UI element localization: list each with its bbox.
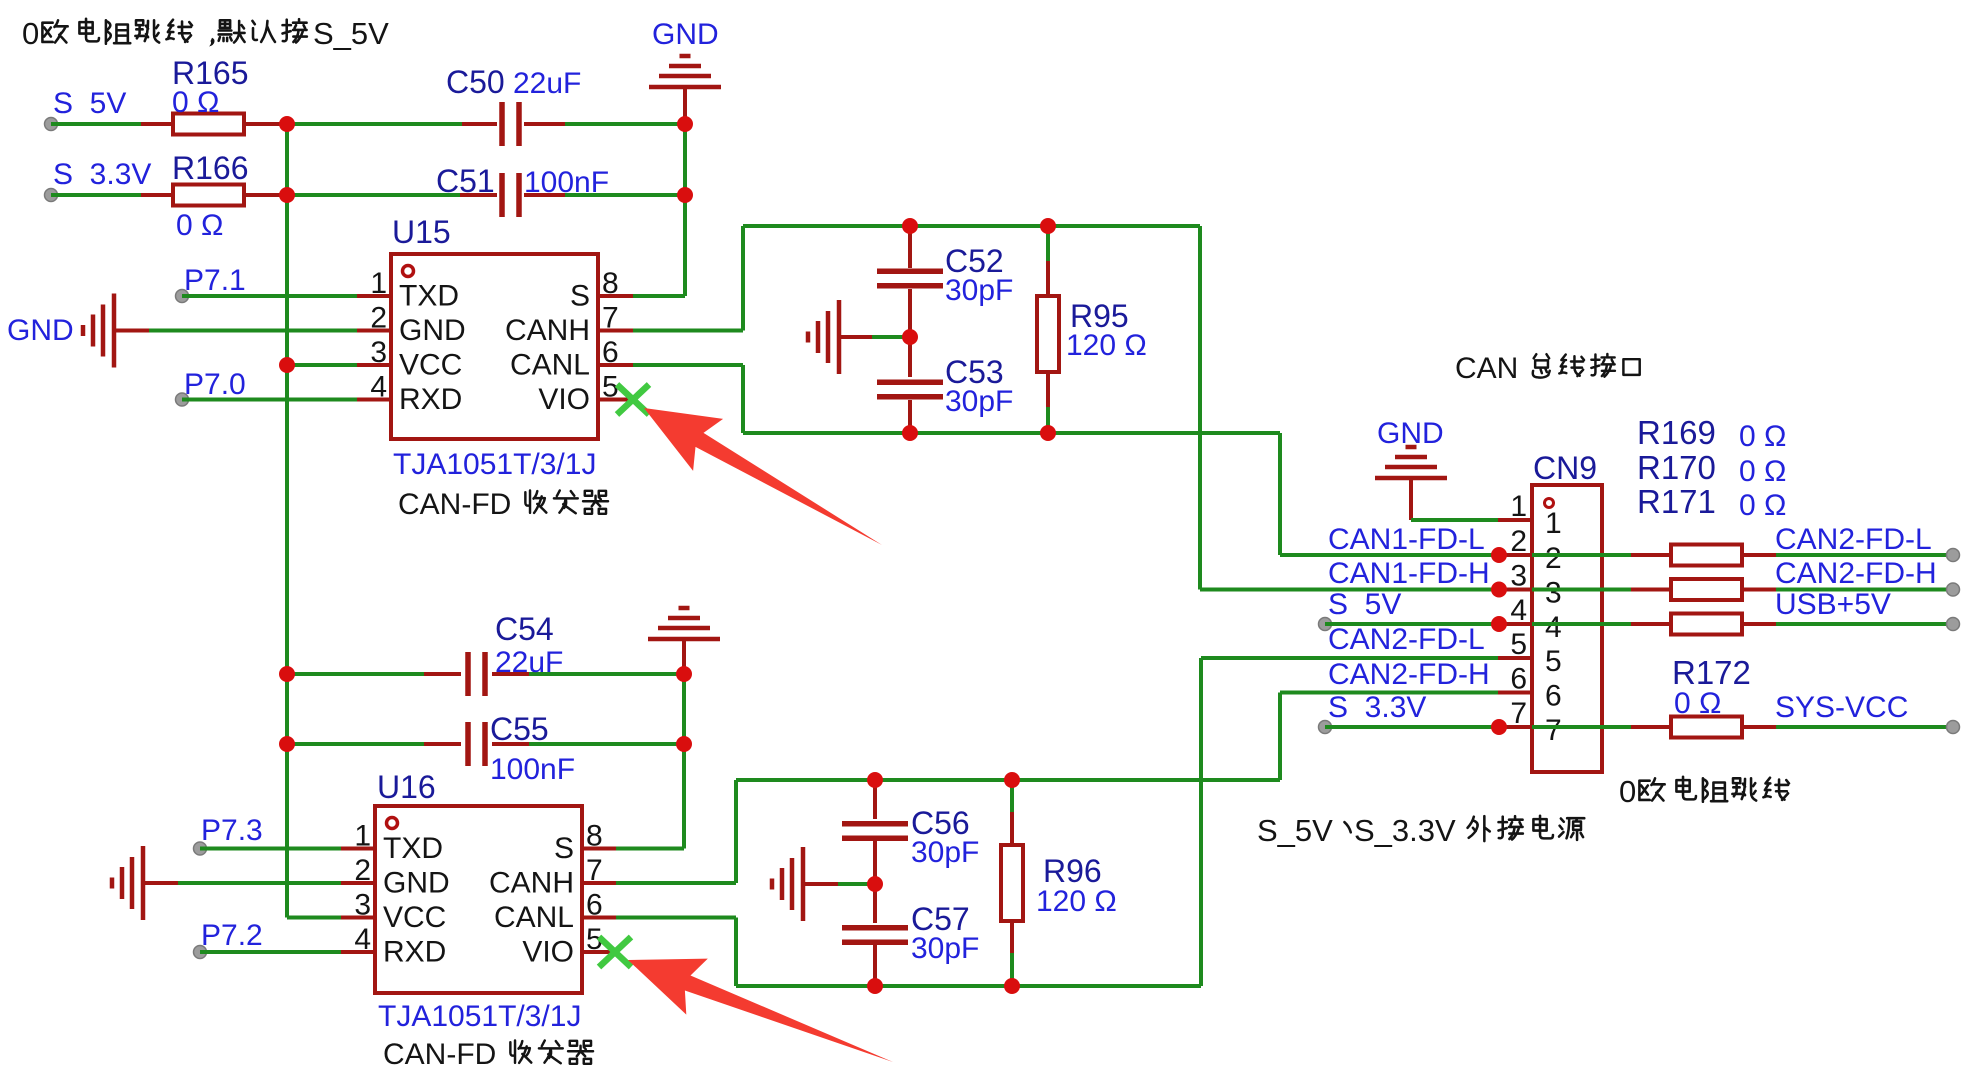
svg-text:R166: R166: [172, 150, 249, 186]
svg-text:2: 2: [1545, 542, 1562, 575]
svg-text:0: 0: [22, 16, 39, 51]
wire vertical to U16 S pin: [682, 674, 686, 849]
svg-text:S_5V: S_5V: [313, 16, 389, 51]
wire P7.2 to U16 RXD: [200, 950, 341, 954]
junction CN9 pin4: [1491, 616, 1507, 632]
terminal SYS-VCC: [1947, 721, 1960, 734]
CN9 pin 7: [1498, 725, 1532, 729]
capacitor C51 plates: [502, 173, 519, 217]
wire CANH to CN9 pin3: [1198, 226, 1202, 590]
svg-text:S: S: [570, 280, 590, 313]
capacitor C53 plates: [877, 382, 943, 396]
svg-text:S 3.3V: S 3.3V: [1328, 691, 1426, 724]
junction: [279, 736, 295, 752]
wire vertical GND to U15 S pin: [683, 124, 687, 296]
U15 pin 1 TXD: [357, 294, 391, 298]
capacitor C52 plates: [877, 271, 943, 285]
junction: [902, 329, 918, 345]
wire vertical S-net bus: [285, 124, 289, 918]
wire ground to U16 pin2: [178, 881, 341, 885]
ground stem: [803, 882, 838, 886]
annotation arrow to U15 VIO: [644, 408, 882, 545]
ground stem: [114, 329, 149, 333]
IC U16 TJA1051 body: [375, 806, 582, 993]
terminal USB+5V: [1947, 618, 1960, 631]
capacitor C50: [462, 122, 497, 126]
terminal CAN2-FD-H: [1947, 583, 1960, 596]
junction CN9 pin2: [1491, 547, 1507, 563]
junction: [279, 357, 295, 373]
svg-text:8: 8: [586, 820, 603, 853]
U16 pin 6 CANL: [582, 916, 616, 920]
ground left of U16: [112, 846, 143, 920]
svg-text:CAN-FD: CAN-FD: [398, 488, 511, 521]
wire: [287, 193, 460, 197]
resistor R170 jumper: [1532, 588, 1631, 592]
U15 pin 7 CANH: [598, 329, 633, 333]
wire: [51, 193, 141, 197]
svg-text:CANH: CANH: [505, 314, 590, 347]
U16 pin 2 GND: [341, 881, 375, 885]
wire S_3.3V to CN9 pin7: [1325, 725, 1499, 729]
wire CANL rail lower: [736, 984, 1201, 988]
annotation arrow to U16 VIO: [628, 959, 893, 1062]
svg-text:RXD: RXD: [399, 383, 462, 416]
svg-text:8: 8: [602, 267, 619, 300]
ground stem: [143, 881, 178, 885]
ground above U16 S net: [648, 608, 720, 639]
svg-text:CAN2-FD-H: CAN2-FD-H: [1328, 658, 1490, 691]
ground stem: [839, 335, 872, 339]
terminal P7.2: [194, 946, 207, 959]
wire CANL U16: [616, 916, 736, 920]
svg-text:4: 4: [370, 371, 387, 404]
svg-text:7: 7: [586, 854, 603, 887]
terminal P7.0: [176, 393, 189, 406]
CN9 pin 4: [1498, 622, 1532, 626]
svg-text:1: 1: [370, 267, 387, 300]
terminal S_3.3V right: [1319, 721, 1332, 734]
svg-text:7: 7: [1510, 697, 1527, 730]
svg-text:2: 2: [370, 302, 387, 335]
svg-text:6: 6: [1510, 663, 1527, 696]
svg-text:CAN: CAN: [1455, 352, 1518, 385]
svg-text:S 5V: S 5V: [1328, 588, 1401, 621]
svg-text:R171: R171: [1637, 483, 1716, 520]
ground stem: [682, 639, 686, 674]
wire GND to CN9 pin1: [1411, 518, 1498, 522]
svg-text:P7.2: P7.2: [201, 919, 263, 952]
svg-text:S_5V: S_5V: [1257, 813, 1333, 848]
svg-text:CAN2-FD-L: CAN2-FD-L: [1775, 523, 1932, 556]
U16 pin 5 VIO: [582, 950, 614, 954]
junction: [1040, 425, 1056, 441]
svg-text:R96: R96: [1043, 853, 1102, 889]
wire: [565, 193, 685, 197]
ground stem: [1409, 478, 1413, 520]
wire CANH to CN9 pin6: [1278, 693, 1282, 781]
svg-text:S 3.3V: S 3.3V: [53, 158, 151, 191]
svg-text:CAN2-FD-L: CAN2-FD-L: [1328, 623, 1485, 656]
resistor R172 jumper: [1532, 725, 1631, 729]
wire: [287, 122, 462, 126]
wire CANL rail: [743, 431, 1280, 435]
CN9 pin 6: [1498, 691, 1532, 695]
svg-text:C50: C50: [446, 64, 505, 100]
svg-text:7: 7: [1545, 714, 1562, 747]
junction: [1004, 978, 1020, 994]
svg-text:2: 2: [1510, 525, 1527, 558]
junction: [279, 666, 295, 682]
svg-text:3: 3: [1510, 560, 1527, 593]
svg-text:SYS-VCC: SYS-VCC: [1775, 691, 1908, 724]
wire CANH: [633, 329, 743, 333]
capacitor C53: [908, 342, 912, 377]
U15 pin 3 VCC: [357, 363, 391, 367]
capacitor C56 plates: [842, 824, 908, 838]
terminal P7.1: [176, 290, 189, 303]
svg-text:C51: C51: [436, 163, 495, 199]
wire to U15 VCC: [287, 363, 357, 367]
pin-1 indicator U16: [387, 818, 398, 829]
junction: [279, 116, 295, 132]
svg-text:RXD: RXD: [383, 936, 446, 969]
svg-text:CANL: CANL: [510, 349, 590, 382]
junction: [902, 218, 918, 234]
terminal P7.3: [194, 842, 207, 855]
svg-text:0 Ω: 0 Ω: [1739, 420, 1786, 453]
svg-text:GND: GND: [652, 18, 719, 51]
svg-text:1: 1: [1510, 490, 1527, 523]
svg-text:6: 6: [602, 336, 619, 369]
wire CANL: [633, 363, 743, 367]
resistor R96: [1010, 780, 1014, 812]
resistor R165 lead: [141, 122, 173, 126]
svg-text:30pF: 30pF: [945, 274, 1013, 307]
svg-text:5: 5: [1510, 628, 1527, 661]
junction: [1004, 772, 1020, 788]
junction: [1040, 218, 1056, 234]
U15 pin 4 RXD: [357, 398, 391, 402]
svg-text:VIO: VIO: [522, 936, 574, 969]
capacitor C54: [287, 672, 424, 676]
ground mid lower: [772, 847, 803, 921]
svg-text:CAN1-FD-H: CAN1-FD-H: [1328, 557, 1490, 590]
svg-text:2: 2: [354, 854, 371, 887]
svg-text:GND: GND: [7, 314, 74, 347]
svg-text:R172: R172: [1672, 654, 1751, 691]
svg-text:1: 1: [354, 820, 371, 853]
svg-text:3: 3: [1545, 577, 1562, 610]
svg-text:4: 4: [1510, 594, 1527, 627]
svg-text:GND: GND: [383, 867, 450, 900]
ground mid upper: [808, 300, 839, 374]
resistor R169 jumper: [1532, 553, 1631, 557]
wire CANH rail lower: [736, 778, 1280, 782]
wire CANL to CN9 pin5: [1199, 658, 1203, 986]
resistor R166: [173, 185, 244, 206]
wire to U16 VCC: [287, 916, 341, 920]
svg-text:S 5V: S 5V: [53, 87, 126, 120]
resistor R165: [173, 114, 244, 135]
wire CANH rail: [743, 224, 1200, 228]
svg-text:VIO: VIO: [538, 383, 590, 416]
svg-text:R169: R169: [1637, 414, 1716, 451]
svg-text:30pF: 30pF: [911, 932, 979, 965]
svg-text:CAN1-FD-L: CAN1-FD-L: [1328, 523, 1485, 556]
wire ground to C52/C53 node: [872, 335, 906, 339]
junction: [676, 736, 692, 752]
U16 pin 4 RXD: [341, 950, 375, 954]
svg-text:5: 5: [1545, 645, 1562, 678]
junction CN9 pin7: [1491, 719, 1507, 735]
svg-text:S: S: [554, 832, 574, 865]
wire U16 S pin: [616, 847, 684, 851]
svg-text:U16: U16: [377, 769, 436, 805]
CN9 pin 1: [1498, 518, 1532, 522]
svg-text:CAN2-FD-H: CAN2-FD-H: [1775, 557, 1937, 590]
U15 pin 5 VIO: [598, 398, 632, 402]
svg-text:TJA1051T/3/1J: TJA1051T/3/1J: [378, 1000, 581, 1033]
resistor R166 lead: [141, 193, 173, 197]
svg-text:C54: C54: [495, 611, 554, 647]
junction: [867, 978, 883, 994]
terminal CAN2-FD-L: [1947, 549, 1960, 562]
svg-text:CANH: CANH: [489, 867, 574, 900]
wire lead: [244, 122, 287, 126]
U15 pin 8 S: [598, 294, 633, 298]
svg-text:6: 6: [586, 889, 603, 922]
wire CANL to CN9 pin2: [1278, 433, 1282, 555]
svg-text:4: 4: [354, 923, 371, 956]
svg-text:R170: R170: [1637, 449, 1716, 486]
svg-text:TXD: TXD: [383, 832, 443, 865]
ground GND top: [649, 56, 721, 87]
junction: [867, 876, 883, 892]
wire P7.0 to RXD: [182, 398, 357, 402]
svg-text:P7.3: P7.3: [201, 814, 263, 847]
U16 pin 8 S: [582, 847, 616, 851]
CN9 pin 5: [1498, 656, 1532, 660]
wire CANL vertical: [734, 918, 738, 987]
wire P7.1 to TXD: [182, 294, 357, 298]
connector CN9 body: [1532, 485, 1602, 772]
wire ground to C56/C57 node: [838, 882, 871, 886]
terminal S_3.3V: [45, 189, 58, 202]
capacitor C54 plates: [468, 652, 485, 696]
wire U15 S pin to GND net: [633, 294, 685, 298]
junction CN9 pin3: [1491, 582, 1507, 598]
svg-text:22uF: 22uF: [513, 67, 581, 100]
junction: [677, 187, 693, 203]
junction: [867, 772, 883, 788]
svg-text:S_3.3V: S_3.3V: [1354, 813, 1456, 848]
capacitor C52: [908, 228, 912, 268]
wire CANL vertical: [741, 365, 745, 433]
terminal S_5V right: [1319, 618, 1332, 631]
svg-text:1: 1: [1545, 507, 1562, 540]
pin-1 indicator U15: [403, 266, 414, 277]
CN9 pin 2: [1498, 553, 1532, 557]
wire GND to U15 pin2: [149, 329, 357, 333]
junction: [902, 425, 918, 441]
capacitor C57 plates: [842, 928, 908, 942]
wire P7.3 to U16 TXD: [200, 847, 341, 851]
IC U15 TJA1051 body: [391, 254, 598, 439]
wire S_5V to CN9 pin4: [1325, 622, 1499, 626]
svg-text:TJA1051T/3/1J: TJA1051T/3/1J: [393, 448, 596, 481]
svg-text:0 Ω: 0 Ω: [1674, 687, 1721, 720]
U16 pin 1 TXD: [341, 847, 375, 851]
terminal S_5V: [45, 118, 58, 131]
svg-text:P7.1: P7.1: [184, 264, 246, 297]
capacitor C55 plates: [468, 722, 485, 766]
svg-text:CAN-FD: CAN-FD: [383, 1038, 496, 1071]
svg-text:22uF: 22uF: [495, 646, 563, 679]
svg-text:TXD: TXD: [399, 280, 459, 313]
svg-text:30pF: 30pF: [911, 836, 979, 869]
svg-text:3: 3: [370, 336, 387, 369]
svg-text:U15: U15: [392, 214, 451, 250]
svg-text:VCC: VCC: [383, 901, 446, 934]
svg-text:7: 7: [602, 302, 619, 335]
svg-text:CN9: CN9: [1533, 450, 1597, 486]
svg-text:USB+5V: USB+5V: [1775, 588, 1891, 621]
svg-text:GND: GND: [399, 314, 466, 347]
svg-text:6: 6: [1545, 680, 1562, 713]
capacitor C51: [460, 193, 497, 197]
svg-text:CANL: CANL: [494, 901, 574, 934]
ground left of U15: [83, 294, 114, 368]
svg-text:3: 3: [354, 889, 371, 922]
wire CANH vertical: [741, 226, 745, 331]
ground above CN9: [1375, 447, 1447, 478]
svg-text:P7.0: P7.0: [184, 368, 246, 401]
resistor R95: [1046, 226, 1050, 261]
U15 pin 2 GND: [357, 329, 391, 333]
svg-text:30pF: 30pF: [945, 385, 1013, 418]
svg-text:4: 4: [1545, 611, 1562, 644]
U16 pin 7 CANH: [582, 881, 616, 885]
wire CANH vertical: [734, 780, 738, 883]
U15 pin 6 CANL: [598, 363, 633, 367]
ground stem: [683, 87, 687, 124]
wire CANH U16: [616, 881, 736, 885]
svg-text:120 Ω: 120 Ω: [1036, 885, 1117, 918]
junction: [676, 666, 692, 682]
svg-text:120 Ω: 120 Ω: [1066, 329, 1147, 362]
svg-text:0 Ω: 0 Ω: [1739, 455, 1786, 488]
CN9 pin 3: [1498, 588, 1532, 592]
svg-text:C55: C55: [490, 711, 549, 747]
capacitor C50 plates: [502, 102, 519, 146]
svg-text:VCC: VCC: [399, 349, 462, 382]
wire lead: [244, 193, 287, 197]
svg-text:0: 0: [1619, 774, 1636, 809]
U16 pin 3 VCC: [341, 916, 375, 920]
svg-text:0 Ω: 0 Ω: [172, 86, 219, 119]
svg-text:0 Ω: 0 Ω: [1739, 489, 1786, 522]
junction: [279, 187, 295, 203]
resistor R171 jumper: [1532, 622, 1631, 626]
capacitor C57: [873, 889, 877, 923]
junction: [677, 116, 693, 132]
pin-1 indicator CN9: [1545, 499, 1554, 508]
wire: [565, 122, 685, 126]
svg-text:100nF: 100nF: [490, 753, 575, 786]
capacitor C56: [873, 782, 877, 819]
svg-text:0 Ω: 0 Ω: [176, 209, 223, 242]
capacitor C55: [287, 742, 424, 746]
no-connect X on U16 VIO: [599, 937, 631, 967]
wire: [51, 122, 141, 126]
no-connect X on U15 VIO: [617, 385, 649, 415]
